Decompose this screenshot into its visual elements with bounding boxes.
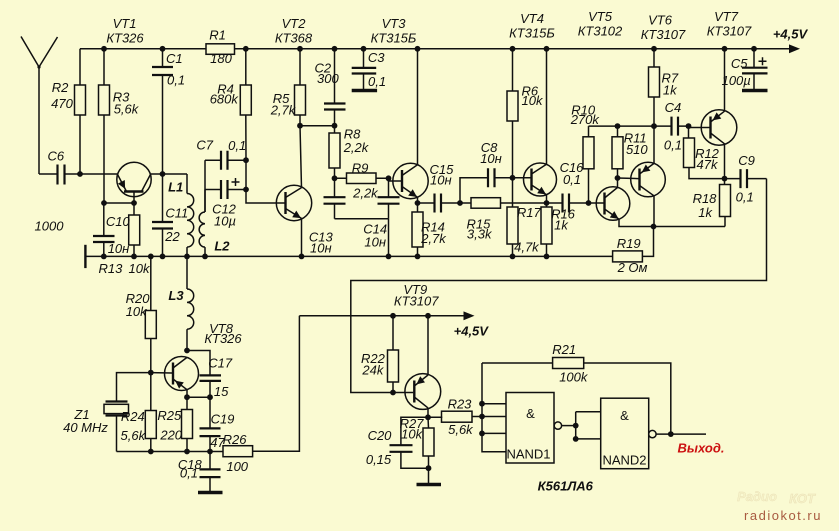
svg-text:КОТ: КОТ <box>789 491 816 506</box>
wire to VT8 base <box>151 372 172 374</box>
resistor R6 <box>507 49 518 178</box>
capacitor C19 <box>200 397 221 451</box>
svg-text:10k: 10k <box>129 261 151 276</box>
wire C6 to VT1 emitter <box>65 173 118 175</box>
NAND1 input dots <box>479 401 485 436</box>
wire R18 bottom to VT6 collector node <box>654 226 726 228</box>
capacitor C5 (polarized, to ground) <box>742 49 768 91</box>
svg-text:C20: C20 <box>368 428 393 443</box>
capacitor C7 <box>205 151 246 170</box>
node VT9 emitter top <box>425 313 431 319</box>
node R22 top <box>390 313 396 319</box>
capacitor C11 <box>152 174 173 256</box>
capacitor C20 <box>390 417 429 468</box>
wire VT6 emitter up to R7 node <box>653 126 655 163</box>
wire R10 top across R11/R7 tops <box>589 125 655 127</box>
transistor VT6 (PNP) <box>631 162 666 197</box>
node C15 right / C8 tap <box>457 200 463 206</box>
svg-text:R2: R2 <box>52 80 69 95</box>
svg-text:C7: C7 <box>196 138 213 153</box>
svg-text:C3: C3 <box>368 50 385 65</box>
transistor VT1 (PNP, base down) <box>117 162 151 203</box>
resistor R12 <box>684 126 725 179</box>
inductor L3 <box>187 256 194 350</box>
wire R5 bottom to C2/R8 <box>300 125 335 127</box>
svg-text:0,1: 0,1 <box>228 138 246 153</box>
capacitor C6 <box>58 165 65 185</box>
node VT8 emitter <box>184 394 190 400</box>
resistor R10 <box>583 126 594 203</box>
svg-text:24k: 24k <box>361 363 384 378</box>
NAND1 input stubs <box>482 404 506 434</box>
resistor R11 <box>612 126 623 178</box>
svg-text:R24: R24 <box>121 409 145 424</box>
antenna <box>21 37 58 175</box>
resistor R25 <box>182 397 193 451</box>
svg-text:КТ315Б: КТ315Б <box>371 31 417 46</box>
top +4.5V rail <box>80 48 793 50</box>
resistor R24 <box>145 373 156 452</box>
svg-text:220: 220 <box>159 427 182 442</box>
resistor R16 <box>541 203 552 256</box>
wire VT2 collector column <box>300 49 302 257</box>
node R27 bottom <box>426 465 432 471</box>
svg-text:C19: C19 <box>211 412 235 427</box>
svg-text:10н: 10н <box>108 241 130 256</box>
node C4 right / R12 top / VT7 base <box>686 123 692 129</box>
node R12/VT7 collector/R18/C9 <box>722 176 728 182</box>
ground under R27 <box>417 468 442 484</box>
wire VT3 emitter down <box>417 197 419 203</box>
svg-text:100: 100 <box>226 459 248 474</box>
svg-text:1k: 1k <box>554 218 569 233</box>
svg-text:10k: 10k <box>126 304 148 319</box>
svg-text:2,7k: 2,7k <box>270 103 297 118</box>
capacitor C18 (to ground) <box>198 452 223 493</box>
transistor VT8 (PNP, collector up) <box>165 357 199 391</box>
svg-text:1k: 1k <box>663 83 678 98</box>
wire R9 to VT3 base <box>389 178 402 181</box>
svg-text:R1: R1 <box>209 28 226 43</box>
bottom node dots <box>148 449 213 455</box>
svg-text:Выход.: Выход. <box>678 441 725 456</box>
inductor L1 <box>187 174 194 256</box>
wire antenna to C6 <box>39 173 58 175</box>
resistor R2 <box>75 49 86 174</box>
wire C13/C14 midpoint to bus <box>335 219 389 257</box>
inductor L2 <box>199 190 205 257</box>
svg-text:К561ЛА6: К561ЛА6 <box>538 478 594 493</box>
gate NAND1 <box>506 393 554 464</box>
svg-text:R26: R26 <box>223 432 248 447</box>
bottom node wire <box>117 451 224 453</box>
resistor R13 <box>129 203 140 256</box>
resistor R3 <box>99 49 110 203</box>
capacitor C15 <box>418 194 461 213</box>
wire R4 column down to VT2 base <box>246 160 285 203</box>
wire collector node to L1 <box>151 173 187 175</box>
transistor VT5 (NPN) <box>596 178 630 220</box>
node R6 bottom / C8 right / VT4 base <box>510 175 516 181</box>
capacitor C8 <box>460 168 513 203</box>
svg-text:10н: 10н <box>310 241 332 256</box>
wire VT9 emitter up <box>427 316 429 375</box>
capacitor C3 (to ground) <box>352 49 377 91</box>
resistor R9 <box>335 173 389 184</box>
node R2 bottom <box>77 171 83 177</box>
svg-text:0,1: 0,1 <box>563 172 581 187</box>
rail junction dots <box>101 46 757 52</box>
svg-text:2,7k: 2,7k <box>420 231 447 246</box>
svg-text:КТ326: КТ326 <box>204 331 242 346</box>
svg-text:C10: C10 <box>106 214 131 229</box>
svg-text:5,6k: 5,6k <box>121 428 147 443</box>
ground bus <box>85 245 612 268</box>
svg-text:R25: R25 <box>157 408 182 423</box>
svg-text:КТ3107: КТ3107 <box>394 293 439 308</box>
NAND2 output bubble <box>649 430 656 437</box>
svg-text:3,3k: 3,3k <box>467 227 493 242</box>
svg-text:0,1: 0,1 <box>167 73 185 88</box>
svg-text:КТ326: КТ326 <box>106 31 144 46</box>
capacitor C1 <box>152 49 173 174</box>
resistor R19 (in bus) <box>613 227 654 262</box>
svg-text:0,15: 0,15 <box>366 452 392 467</box>
node VT4 emitter / R16 / C16 <box>544 200 550 206</box>
svg-text:КТ3107: КТ3107 <box>641 27 686 42</box>
svg-text:C11: C11 <box>165 206 188 221</box>
svg-text:Радио: Радио <box>737 489 777 504</box>
svg-text:510: 510 <box>626 142 648 157</box>
svg-text:15: 15 <box>214 384 229 399</box>
wire emitter to C17 bottom <box>187 396 210 398</box>
svg-text:10k: 10k <box>522 93 544 108</box>
wire VT5 base <box>589 202 604 204</box>
svg-text:VT1: VT1 <box>113 16 137 31</box>
node R8 top <box>332 123 338 129</box>
svg-text:VT2: VT2 <box>282 16 307 31</box>
resistor R22 <box>388 316 399 393</box>
rail arrowhead <box>789 44 800 53</box>
node C16 right / R10 bottom / VT5 base <box>586 200 592 206</box>
bus junction dots <box>101 254 549 260</box>
svg-text:C17: C17 <box>208 355 233 370</box>
svg-text:radiokot.ru: radiokot.ru <box>744 508 822 523</box>
wire VT7 emitter to rail <box>724 49 726 111</box>
node R21 right bottom <box>668 431 674 437</box>
wire VT7 collector down <box>724 144 726 179</box>
svg-text:1k: 1k <box>698 205 713 220</box>
NAND1 output bubble <box>554 422 561 429</box>
wire VT4 collector to rail <box>546 49 548 165</box>
node R22 bottom / VT9 base <box>390 390 396 396</box>
node VT1 base <box>131 200 137 206</box>
svg-text:VT5: VT5 <box>588 9 613 24</box>
svg-text:10н: 10н <box>430 173 452 188</box>
gate NAND2 <box>601 398 649 469</box>
capacitor C2 <box>324 49 346 126</box>
svg-text:NAND1: NAND1 <box>506 447 550 462</box>
+4.5V feed line to VT9 <box>299 315 466 317</box>
svg-text:10н: 10н <box>364 235 386 250</box>
resistor R8 <box>329 126 340 179</box>
node VT6 collector <box>651 224 657 230</box>
svg-text:10н: 10н <box>480 151 502 166</box>
node R11 top <box>615 123 621 129</box>
transistor VT9 (PNP, emitter up) <box>405 374 441 410</box>
node R5 bottom <box>297 123 303 129</box>
svg-text:0,1: 0,1 <box>368 74 386 89</box>
resistor R20 <box>145 256 156 372</box>
NAND1 input vertical <box>482 363 506 452</box>
svg-text:5,6k: 5,6k <box>114 102 140 117</box>
svg-text:470: 470 <box>51 96 73 111</box>
svg-text:680k: 680k <box>210 92 240 107</box>
svg-text:2,2k: 2,2k <box>343 140 370 155</box>
node C12 right <box>243 187 249 193</box>
NAND2 output wire <box>656 433 706 435</box>
resistor R27 <box>423 417 434 468</box>
svg-text:R19: R19 <box>617 236 641 251</box>
resistor R15 <box>460 198 547 209</box>
svg-text:&: & <box>620 408 629 423</box>
node R8 bottom / R9 left / C13 top <box>332 175 338 181</box>
NAND1 output wire <box>562 425 576 427</box>
svg-text:L1: L1 <box>168 180 183 195</box>
resistor R23 <box>428 411 482 422</box>
svg-text:R23: R23 <box>448 397 473 412</box>
resistor R21 <box>482 358 671 435</box>
svg-text:C9: C9 <box>738 153 755 168</box>
svg-text:180: 180 <box>210 51 232 66</box>
capacitor C13 <box>324 178 346 218</box>
wire C9 right down and across (feedback to VT9) <box>351 179 767 393</box>
svg-text:VT6: VT6 <box>648 13 673 28</box>
resistor R7 <box>649 49 660 126</box>
node R11 bottom / VT5 collector / VT6 base <box>615 175 621 181</box>
resistor R1 <box>206 44 235 55</box>
node VT1 collector / C1 / L1 <box>160 171 166 177</box>
svg-text:VT3: VT3 <box>382 16 407 31</box>
resistor R18 <box>720 179 731 227</box>
node C17 bottom <box>207 394 213 400</box>
capacitor C16 <box>547 194 589 213</box>
svg-text:+4,5V: +4,5V <box>454 323 490 338</box>
transistor VT2 (NPN) <box>276 185 311 220</box>
svg-text:270k: 270k <box>570 112 601 127</box>
svg-text:R13: R13 <box>98 261 123 276</box>
wire VT6 collector down <box>653 196 655 227</box>
wire R11 node to VT6 base <box>618 177 639 180</box>
svg-text:R17: R17 <box>517 205 542 220</box>
svg-text:5,6k: 5,6k <box>448 422 474 437</box>
NAND2 input tree <box>576 412 601 439</box>
wire R6 node to VT4 base <box>513 177 531 179</box>
svg-text:22: 22 <box>164 229 180 244</box>
svg-text:&: & <box>526 406 535 421</box>
svg-text:300: 300 <box>317 71 339 86</box>
svg-text:4,7k: 4,7k <box>514 240 540 255</box>
svg-text:NAND2: NAND2 <box>602 453 646 468</box>
node R7 bottom / C4 left / VT6 emitter <box>651 123 657 129</box>
svg-text:C4: C4 <box>665 100 682 115</box>
svg-text:0,1: 0,1 <box>664 137 682 152</box>
wire VT4 emitter down <box>546 195 548 203</box>
svg-text:C6: C6 <box>47 149 64 164</box>
wire VT7 base <box>689 126 710 127</box>
svg-text:VT7: VT7 <box>714 9 739 24</box>
capacitor C12 (polarized) <box>205 178 246 199</box>
transistor VT4 (NPN) <box>524 163 557 196</box>
resistor R17 <box>507 178 518 257</box>
svg-text:10µ: 10µ <box>214 214 236 229</box>
svg-text:L3: L3 <box>168 288 184 303</box>
svg-text:C5: C5 <box>731 56 748 71</box>
svg-text:0,1: 0,1 <box>180 466 198 481</box>
svg-text:C1: C1 <box>166 51 183 66</box>
wire VT8 emitter down <box>186 390 188 398</box>
svg-text:1000: 1000 <box>35 219 65 234</box>
svg-text:КТ3102: КТ3102 <box>578 24 623 39</box>
wire base to R3 column <box>104 202 134 204</box>
node R9 right / C14 top / VT3 base <box>386 175 392 181</box>
svg-text:47k: 47k <box>697 157 719 172</box>
resistor R5 <box>295 85 306 115</box>
resistor R4 <box>240 49 251 160</box>
wire VT9 collector down <box>427 408 429 417</box>
svg-text:КТ3107: КТ3107 <box>707 24 752 39</box>
capacitor C14 <box>378 178 400 218</box>
wire VT5 emitter down/right <box>619 219 654 226</box>
svg-text:L2: L2 <box>214 239 230 254</box>
node L3 bottom / VT8 collector / C17 <box>184 348 190 354</box>
node R20 bottom / VT8 base / Z1 branch <box>148 370 154 376</box>
svg-text:2 Ом: 2 Ом <box>617 260 648 275</box>
capacitor C17 <box>187 351 221 398</box>
node C7 right <box>243 157 249 163</box>
svg-text:VT4: VT4 <box>520 11 544 26</box>
svg-text:R21: R21 <box>552 342 576 357</box>
svg-text:КТ315Б: КТ315Б <box>509 26 555 41</box>
wire left to Z1 <box>117 373 151 402</box>
svg-text:100µ: 100µ <box>722 73 751 88</box>
quartz Z1 <box>104 402 129 452</box>
transistor VT3 (NPN) <box>393 163 428 198</box>
transistor VT7 (PNP) <box>701 110 737 146</box>
svg-text:R9: R9 <box>352 160 369 175</box>
wire VT3 collector to rail <box>417 49 419 165</box>
node VT9 collector <box>425 414 431 420</box>
capacitor C10 <box>93 203 115 256</box>
capacitor C4 <box>654 117 689 136</box>
svg-text:2,2k: 2,2k <box>352 186 379 201</box>
svg-text:100k: 100k <box>559 369 589 384</box>
svg-text:40 MHz: 40 MHz <box>63 420 108 435</box>
capacitor C9 <box>725 169 767 188</box>
svg-text:КТ368: КТ368 <box>275 31 313 46</box>
+4.5V line arrowhead <box>464 311 475 320</box>
svg-text:10k: 10k <box>401 427 423 442</box>
node VT3 emitter / R14 / C15 <box>415 200 421 206</box>
resistor R14 <box>412 203 423 256</box>
svg-text:+4,5V: +4,5V <box>773 27 809 42</box>
svg-text:0,1: 0,1 <box>736 189 754 204</box>
resistor R26 <box>223 316 299 457</box>
wire L2 top / C7-C12 left stub <box>204 160 206 212</box>
